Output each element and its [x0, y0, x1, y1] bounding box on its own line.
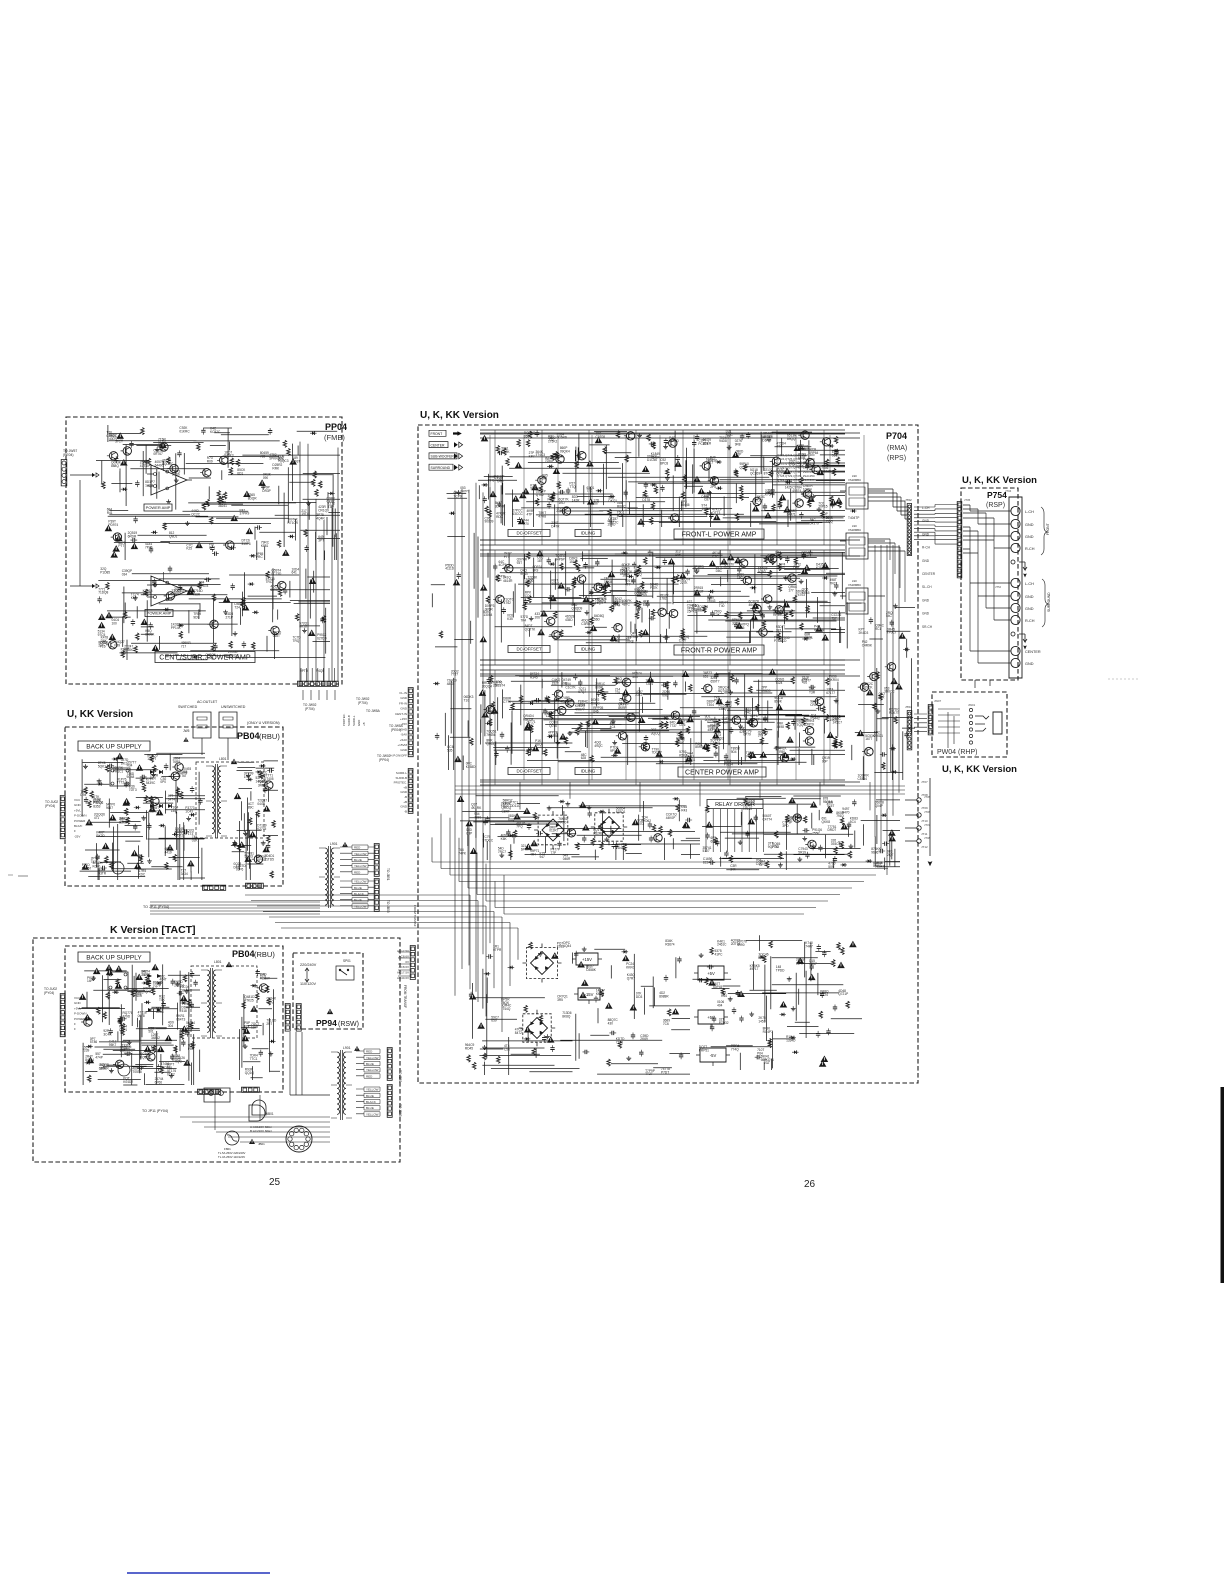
svg-text:(P704): (P704) — [305, 707, 315, 711]
svg-text:6DK: 6DK — [711, 840, 718, 844]
svg-text:SURROUND: SURROUND — [431, 466, 451, 470]
svg-text:49QC: 49QC — [594, 744, 603, 748]
svg-text:2QT: 2QT — [887, 853, 893, 857]
svg-text:142R: 142R — [572, 498, 580, 502]
svg-text:T05T8: T05T8 — [132, 1070, 141, 1074]
svg-text:2461C: 2461C — [717, 943, 727, 947]
svg-text:JT5J: JT5J — [995, 585, 1002, 589]
svg-text:Q3QD9: Q3QD9 — [572, 607, 583, 611]
svg-text:8DQ: 8DQ — [535, 743, 542, 747]
svg-text:90009: 90009 — [485, 520, 494, 524]
svg-text:KK7R: KK7R — [596, 992, 605, 996]
svg-text:74K7: 74K7 — [805, 945, 813, 949]
svg-text:3D0CC: 3D0CC — [884, 690, 895, 694]
svg-text:K0K0: K0K0 — [93, 865, 101, 869]
svg-text:1467T: 1467T — [147, 757, 156, 761]
svg-text:KKK0: KKK0 — [626, 966, 634, 970]
svg-text:9R8: 9R8 — [735, 443, 741, 447]
svg-text:+15VM: +15VM — [397, 743, 407, 747]
svg-text:471: 471 — [94, 816, 100, 820]
svg-text:7PQ: 7PQ — [516, 825, 523, 829]
svg-text:GND: GND — [1025, 662, 1034, 666]
svg-text:1C43: 1C43 — [185, 810, 193, 814]
svg-text:19DQC: 19DQC — [228, 654, 239, 658]
svg-text:P-DOWN: P-DOWN — [74, 1012, 87, 1016]
svg-text:4T7: 4T7 — [625, 582, 631, 586]
svg-text:0C2: 0C2 — [724, 566, 730, 570]
svg-text:86Q3T: 86Q3T — [694, 590, 704, 594]
svg-text:97C5: 97C5 — [98, 633, 106, 637]
svg-text:2R7: 2R7 — [266, 1022, 272, 1026]
svg-text:4TP: 4TP — [527, 512, 533, 516]
svg-text:(PY04): (PY04) — [44, 991, 54, 995]
svg-text:(RMA): (RMA) — [887, 445, 907, 452]
svg-text:746: 746 — [746, 755, 752, 759]
svg-text:QQ1Q: QQ1Q — [245, 1071, 255, 1075]
svg-text:YELLOW: YELLOW — [354, 852, 367, 856]
svg-text:TO JP11 (PY04): TO JP11 (PY04) — [142, 1109, 168, 1113]
svg-text:717: 717 — [181, 644, 187, 648]
svg-text:SWITCHED: SWITCHED — [178, 705, 198, 709]
svg-text:49P: 49P — [675, 553, 681, 557]
svg-text:D446: D446 — [701, 495, 709, 499]
svg-text:P1D85: P1D85 — [100, 570, 110, 574]
svg-text:C263: C263 — [156, 1010, 164, 1014]
svg-text:Q9CQ: Q9CQ — [486, 742, 496, 746]
svg-text:659T7: 659T7 — [711, 680, 720, 684]
svg-text:33Q0: 33Q0 — [732, 621, 740, 625]
svg-text:3KR04: 3KR04 — [829, 678, 839, 682]
svg-text:7737: 7737 — [451, 673, 458, 677]
svg-text:474P: 474P — [95, 1055, 102, 1059]
svg-text:L-CH: L-CH — [922, 506, 930, 510]
svg-text:6P66: 6P66 — [155, 1080, 163, 1084]
svg-text:487R9: 487R9 — [171, 1057, 181, 1061]
svg-text:TTT2: TTT2 — [117, 781, 125, 785]
svg-text:Q721P: Q721P — [838, 992, 848, 996]
svg-text:47R8: 47R8 — [538, 515, 546, 519]
svg-text:QRQ: QRQ — [267, 1000, 275, 1004]
svg-text:C93T: C93T — [293, 460, 301, 464]
svg-text:L-CH: L-CH — [1025, 582, 1034, 586]
svg-text:2372: 2372 — [635, 693, 642, 697]
svg-text:JT10: JT10 — [921, 819, 928, 823]
svg-text:7QQC3: 7QQC3 — [278, 459, 289, 463]
svg-text:TO JP11 (PY04): TO JP11 (PY04) — [143, 905, 169, 909]
svg-text:9P192: 9P192 — [610, 749, 619, 753]
svg-text:03TR: 03TR — [98, 872, 106, 876]
svg-text:FR-IN: FR-IN — [399, 701, 407, 705]
svg-text:0TPR: 0TPR — [493, 948, 502, 952]
svg-text:R-CH: R-CH — [922, 546, 931, 550]
svg-text:C4834: C4834 — [858, 777, 868, 781]
svg-text:SP01: SP01 — [343, 959, 351, 963]
svg-text:+15V: +15V — [582, 957, 592, 962]
svg-text:RC4P7: RC4P7 — [763, 1030, 774, 1034]
svg-text:BACK UP SUPPLY: BACK UP SUPPLY — [86, 743, 142, 750]
svg-text:21TD5: 21TD5 — [264, 858, 274, 862]
svg-text:RQC: RQC — [726, 433, 734, 437]
svg-text:18T: 18T — [537, 559, 543, 563]
svg-text:0P0: 0P0 — [160, 780, 166, 784]
svg-text:5QD3: 5QD3 — [245, 855, 254, 859]
svg-text:QT62: QT62 — [536, 493, 544, 497]
svg-text:2D4R: 2D4R — [616, 846, 625, 850]
svg-text:11K: 11K — [251, 1025, 257, 1029]
svg-text:518: 518 — [182, 1009, 188, 1013]
svg-text:T10: T10 — [464, 699, 470, 703]
svg-text:K2775: K2775 — [257, 827, 266, 831]
svg-text:PR07: PR07 — [548, 498, 556, 502]
svg-text:JT12: JT12 — [921, 845, 928, 849]
svg-text:P70: P70 — [523, 522, 529, 526]
svg-text:GND: GND — [1025, 595, 1034, 599]
svg-text:RD45: RD45 — [465, 1046, 473, 1050]
svg-text:R-CH: R-CH — [1025, 547, 1035, 551]
svg-text:068T: 068T — [273, 634, 280, 638]
svg-text:177: 177 — [788, 588, 794, 592]
svg-text:BLUE: BLUE — [366, 1062, 374, 1066]
svg-text:F: F — [74, 1027, 76, 1031]
svg-text:K467: K467 — [768, 492, 776, 496]
svg-text:B:AC220V 60Hz: B:AC220V 60Hz — [250, 1129, 272, 1133]
svg-text:C082: C082 — [801, 554, 809, 558]
svg-text:Q06PP: Q06PP — [174, 590, 184, 594]
svg-text:271P: 271P — [226, 615, 233, 619]
svg-text:BLACK: BLACK — [366, 1100, 376, 1104]
svg-text:61R2: 61R2 — [167, 1072, 175, 1076]
svg-text:JT02: JT02 — [905, 498, 912, 502]
svg-text:P9442: P9442 — [811, 717, 820, 721]
svg-text:118: 118 — [546, 714, 551, 718]
svg-text:RED: RED — [354, 846, 361, 850]
svg-text:84344: 84344 — [85, 1058, 94, 1062]
svg-text:YELLOW: YELLOW — [354, 904, 367, 908]
svg-text:L90: L90 — [852, 524, 857, 528]
svg-text:DC-OFFSET: DC-OFFSET — [516, 647, 541, 652]
svg-text:95K7: 95K7 — [109, 1043, 117, 1047]
svg-text:C56: C56 — [504, 1047, 510, 1051]
svg-text:798R: 798R — [193, 592, 201, 596]
svg-text:509: 509 — [828, 865, 834, 869]
svg-text:C357: C357 — [809, 962, 817, 966]
svg-text:45574: 45574 — [792, 489, 801, 493]
svg-text:1RK: 1RK — [244, 775, 251, 779]
svg-text:4RK77: 4RK77 — [575, 708, 585, 712]
svg-text:9Q48: 9Q48 — [127, 775, 135, 779]
svg-text:7T16: 7T16 — [616, 1041, 623, 1045]
svg-text:8353: 8353 — [93, 805, 100, 809]
svg-text:8472: 8472 — [515, 1031, 522, 1035]
svg-text:AC17.5V: AC17.5V — [397, 949, 409, 953]
svg-text:SURR-B: SURR-B — [347, 715, 351, 726]
svg-text:0V: 0V — [405, 960, 409, 964]
svg-text:H.P.ON/OFF: H.P.ON/OFF — [390, 753, 407, 757]
svg-text:20QQ4: 20QQ4 — [482, 685, 493, 689]
svg-text:(RBU): (RBU) — [254, 950, 275, 959]
svg-text:PRC: PRC — [256, 555, 263, 559]
svg-text:9C6K0: 9C6K0 — [875, 864, 885, 868]
svg-text:L801: L801 — [219, 757, 227, 761]
svg-text:PP04: PP04 — [325, 422, 347, 432]
svg-text:2P44: 2P44 — [613, 603, 621, 607]
svg-text:60P45: 60P45 — [713, 985, 722, 989]
svg-text:T0K: T0K — [159, 998, 166, 1002]
svg-text:C1C7K: C1C7K — [565, 686, 576, 690]
svg-text:BLUE: BLUE — [354, 898, 362, 902]
svg-text:FRONT: FRONT — [431, 432, 443, 436]
svg-text:(PE04): (PE04) — [391, 728, 401, 732]
svg-text:U, KK Version: U, KK Version — [67, 709, 133, 720]
svg-text:TO JB03: TO JB03 — [398, 1104, 402, 1117]
svg-text:01KRC: 01KRC — [179, 430, 190, 434]
svg-text:IDLING: IDLING — [581, 647, 596, 652]
svg-text:TO JB03: TO JB03 — [386, 900, 390, 913]
svg-text:7891: 7891 — [474, 816, 481, 820]
svg-text:41DD3: 41DD3 — [714, 736, 724, 740]
svg-text:RP0: RP0 — [180, 1032, 186, 1036]
svg-text:25PKD: 25PKD — [687, 610, 698, 614]
svg-text:C4524: C4524 — [106, 434, 116, 438]
svg-text:37PR9: 37PR9 — [240, 512, 250, 516]
svg-text:GND: GND — [357, 720, 361, 726]
svg-text:627D9: 627D9 — [317, 636, 327, 640]
svg-text:8474: 8474 — [767, 557, 774, 561]
svg-text:GND: GND — [1025, 523, 1034, 527]
svg-text:PT7: PT7 — [504, 555, 510, 559]
svg-text:425: 425 — [739, 730, 745, 734]
svg-text:501: 501 — [148, 1030, 154, 1034]
svg-text:DD11C: DD11C — [510, 804, 521, 808]
svg-text:(RPS): (RPS) — [887, 455, 906, 462]
svg-text:GND: GND — [1025, 607, 1034, 611]
svg-text:C707: C707 — [679, 638, 687, 642]
svg-text:4498: 4498 — [777, 725, 784, 729]
svg-text:76P15: 76P15 — [818, 505, 827, 509]
svg-text:T7Q: T7Q — [569, 485, 576, 489]
svg-text:7D6C: 7D6C — [545, 459, 554, 463]
svg-text:0R767: 0R767 — [153, 452, 163, 456]
svg-text:227K: 227K — [680, 581, 688, 585]
svg-text:-25V: -25V — [74, 834, 80, 838]
svg-text:QTPC: QTPC — [124, 1051, 134, 1055]
svg-text:4TK25: 4TK25 — [244, 999, 254, 1003]
svg-text:138Q: 138Q — [719, 707, 727, 711]
svg-text:8K9: 8K9 — [533, 569, 539, 573]
svg-text:034: 034 — [122, 572, 128, 576]
svg-text:19RD: 19RD — [607, 523, 616, 527]
svg-text:3PK: 3PK — [100, 1067, 107, 1071]
svg-text:T3R: T3R — [809, 691, 816, 695]
svg-text:PROTEC.: PROTEC. — [342, 713, 346, 726]
svg-text:3D4RP: 3D4RP — [495, 505, 505, 509]
svg-text:762: 762 — [779, 566, 785, 570]
svg-text:QC2C: QC2C — [191, 513, 201, 517]
svg-text:CR4: CR4 — [810, 703, 817, 707]
svg-text:4PCQ1: 4PCQ1 — [560, 700, 571, 704]
svg-text:AC:OUTLET: AC:OUTLET — [197, 700, 218, 704]
svg-text:D6K: D6K — [101, 639, 108, 643]
svg-text:744Q: 744Q — [503, 1007, 511, 1011]
svg-text:98P: 98P — [761, 1058, 767, 1062]
svg-text:RED: RED — [366, 1050, 373, 1054]
svg-text:QC269: QC269 — [750, 472, 760, 476]
svg-text:QKK8: QKK8 — [822, 820, 831, 824]
svg-text:D8C: D8C — [716, 569, 723, 573]
svg-text:3R5: 3R5 — [557, 998, 563, 1002]
svg-text:JT07: JT07 — [921, 780, 928, 784]
svg-text:787: 787 — [593, 502, 599, 506]
svg-text:C4R9K: C4R9K — [862, 643, 873, 647]
svg-text:4CC0T: 4CC0T — [260, 977, 270, 981]
svg-text:64T4: 64T4 — [168, 797, 175, 801]
svg-text:641: 641 — [292, 571, 298, 575]
svg-text:GND: GND — [400, 748, 408, 752]
svg-text:779D: 779D — [123, 1015, 131, 1019]
svg-text:D358K: D358K — [586, 968, 597, 972]
svg-text:GND: GND — [400, 805, 408, 809]
svg-text:67177: 67177 — [826, 691, 835, 695]
svg-text:PC8T3: PC8T3 — [698, 442, 708, 446]
svg-text:313T8: 313T8 — [242, 542, 251, 546]
svg-text:(RSW): (RSW) — [338, 1021, 359, 1028]
svg-text:C4774: C4774 — [763, 817, 773, 821]
svg-text:+5V: +5V — [707, 1015, 715, 1020]
svg-text:SURR-L: SURR-L — [396, 771, 407, 775]
svg-text:340: 340 — [542, 477, 548, 481]
svg-text:JW07: JW07 — [934, 699, 942, 703]
svg-text:CR1Q9: CR1Q9 — [318, 508, 329, 512]
svg-text:44K0P: 44K0P — [666, 816, 676, 820]
svg-text:94P6P: 94P6P — [555, 558, 565, 562]
svg-text:CENTER POWER AMP: CENTER POWER AMP — [685, 770, 759, 777]
svg-text:5439C: 5439C — [146, 781, 156, 785]
svg-text:TP0CT: TP0CT — [887, 631, 897, 635]
svg-text:BLUE: BLUE — [366, 1094, 374, 1098]
svg-text:5TDCC: 5TDCC — [483, 839, 494, 843]
svg-text:094D0: 094D0 — [761, 689, 771, 693]
svg-text:SL-CH: SL-CH — [922, 585, 932, 589]
svg-text:6QDDC: 6QDDC — [162, 462, 174, 466]
svg-text:RED: RED — [354, 870, 361, 874]
svg-text:110/120V: 110/120V — [300, 982, 316, 986]
svg-text:85R7: 85R7 — [796, 961, 804, 965]
svg-text:KP7: KP7 — [529, 455, 535, 459]
svg-text:CENTER: CENTER — [922, 572, 936, 576]
svg-text:7Q7P: 7Q7P — [153, 984, 161, 988]
svg-text:GND: GND — [922, 612, 930, 616]
svg-text:TCT: TCT — [121, 651, 127, 655]
svg-text:L90: L90 — [852, 579, 857, 583]
svg-text:4K1RK: 4K1RK — [471, 806, 482, 810]
svg-text:9C1: 9C1 — [875, 627, 881, 631]
svg-text:QTT3: QTT3 — [712, 511, 720, 515]
svg-text:7TC1: 7TC1 — [250, 1057, 258, 1061]
svg-text:POWER AMP: POWER AMP — [147, 610, 172, 615]
svg-text:2K69: 2K69 — [640, 1037, 648, 1041]
svg-text:8K6: 8K6 — [739, 626, 745, 630]
svg-text:9D4: 9D4 — [731, 750, 737, 754]
svg-text:5C66: 5C66 — [172, 473, 180, 477]
svg-text:7K4: 7K4 — [521, 618, 527, 622]
svg-text:7P40: 7P40 — [145, 545, 153, 549]
svg-text:GND: GND — [400, 707, 408, 711]
svg-text:7KT6T: 7KT6T — [177, 774, 187, 778]
svg-text:JT04: JT04 — [905, 705, 912, 709]
svg-text:44TR1: 44TR1 — [556, 510, 566, 514]
svg-text:AC8.6V: AC8.6V — [399, 965, 409, 969]
svg-text:1P578: 1P578 — [199, 584, 208, 588]
svg-text:5R19: 5R19 — [798, 850, 806, 854]
svg-text:YELLOW: YELLOW — [354, 880, 367, 884]
svg-text:D94: D94 — [80, 793, 86, 797]
svg-text:TRQ: TRQ — [293, 639, 300, 643]
svg-text:PRP51: PRP51 — [699, 1048, 709, 1052]
svg-text:R345: R345 — [530, 676, 538, 680]
svg-text:JT07: JT07 — [924, 823, 931, 827]
svg-text:C94K6: C94K6 — [687, 604, 697, 608]
svg-text:U, K, KK Version: U, K, KK Version — [962, 475, 1037, 486]
svg-text:430: 430 — [608, 1021, 614, 1025]
svg-text:CENTER: CENTER — [1025, 650, 1041, 654]
svg-text:04471: 04471 — [787, 512, 796, 516]
svg-text:2K4D3: 2K4D3 — [859, 631, 869, 635]
svg-text:41PC: 41PC — [715, 952, 724, 956]
svg-text:34842: 34842 — [151, 1036, 160, 1040]
svg-text:19C9: 19C9 — [830, 718, 838, 722]
svg-text:K29: K29 — [816, 566, 822, 570]
svg-text:CT5C: CT5C — [676, 741, 685, 745]
svg-text:JT06: JT06 — [924, 810, 931, 814]
svg-text:DKQ1: DKQ1 — [608, 499, 617, 503]
svg-text:QTKP: QTKP — [740, 466, 749, 470]
svg-text:651: 651 — [703, 675, 709, 679]
svg-text:D76: D76 — [680, 723, 686, 727]
svg-text:49717: 49717 — [750, 967, 759, 971]
svg-text:PP94: PP94 — [316, 1018, 337, 1028]
svg-text:19T4: 19T4 — [301, 512, 308, 516]
svg-text:714T: 714T — [549, 598, 556, 602]
svg-text:JW5: JW5 — [183, 729, 190, 733]
svg-text:416: 416 — [802, 681, 808, 685]
svg-text:247P7: 247P7 — [460, 489, 469, 493]
svg-text:32P: 32P — [736, 453, 742, 457]
svg-text:P4Q5: P4Q5 — [316, 669, 324, 673]
svg-text:6PRR4: 6PRR4 — [521, 848, 532, 852]
svg-text:K25: K25 — [186, 547, 192, 551]
svg-text:19P5P: 19P5P — [702, 507, 712, 511]
svg-text:4614R: 4614R — [503, 579, 513, 583]
svg-text:U, K, KK Version: U, K, KK Version — [420, 410, 499, 421]
svg-text:659: 659 — [491, 1019, 497, 1023]
svg-text:RRK: RRK — [272, 467, 280, 471]
svg-text:K52R8: K52R8 — [593, 831, 603, 835]
svg-text:37CT: 37CT — [115, 440, 123, 444]
svg-text:PB04: PB04 — [237, 731, 260, 741]
svg-text:C3R5D: C3R5D — [581, 622, 592, 626]
svg-text:L90: L90 — [852, 474, 857, 478]
svg-text:RED: RED — [366, 1074, 373, 1078]
svg-text:+B: +B — [403, 785, 407, 789]
svg-text:379: 379 — [758, 734, 764, 738]
svg-text:K683: K683 — [557, 945, 565, 949]
svg-text:GND: GND — [74, 803, 82, 807]
svg-text:IDLING: IDLING — [581, 769, 596, 774]
svg-text:947: 947 — [540, 855, 546, 859]
svg-text:JT08: JT08 — [921, 793, 928, 797]
svg-text:7QRT4: 7QRT4 — [143, 990, 153, 994]
svg-text:3T4C3: 3T4C3 — [536, 453, 546, 457]
